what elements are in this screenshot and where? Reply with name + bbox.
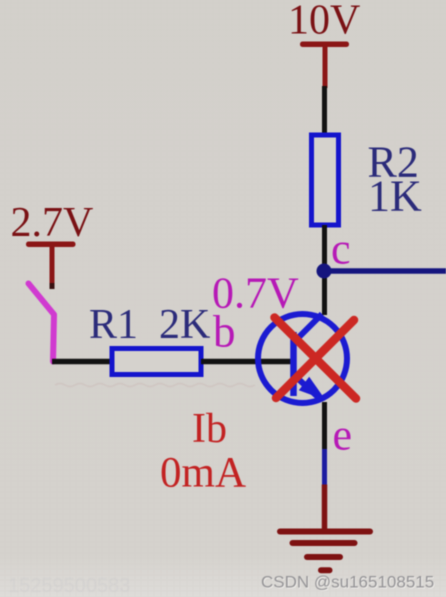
wire 10V to R2 [322, 86, 327, 135]
power symbol 2.7V stem [50, 245, 55, 287]
emitter lead dark red [322, 485, 328, 531]
svg-text:10V: 10V [288, 0, 360, 44]
svg-text:b: b [213, 307, 236, 357]
emitter lead blue [322, 449, 327, 485]
svg-text:c: c [331, 225, 351, 274]
svg-text:15259500583: 15259500583 [8, 575, 130, 597]
ground bar 3 [307, 554, 340, 560]
transistor emitter arrow [299, 377, 326, 400]
power symbol 2.7V bar [26, 242, 76, 248]
magenta wire (open switch) [29, 284, 55, 362]
svg-text:e: e [333, 411, 353, 460]
ground bar 4 [321, 567, 330, 573]
wire R1 to base [201, 359, 292, 365]
resistor R2 [312, 135, 339, 225]
transistor collector slant [295, 314, 322, 341]
transistor emitter slant [295, 376, 318, 397]
power symbol 10V bar [300, 42, 349, 48]
svg-text:Ib: Ib [192, 406, 227, 452]
red cross stroke 1 [275, 318, 357, 399]
wire to R1 [52, 359, 113, 365]
transistor base bar [290, 332, 297, 396]
ground bar 2 [293, 540, 355, 546]
red cross stroke 2 [276, 320, 354, 398]
wire R2 to collector [322, 225, 327, 315]
artifact squiggle [55, 384, 255, 387]
ground bar 1 [280, 529, 370, 535]
wire node c to right edge [324, 268, 446, 274]
svg-text:2.7V: 2.7V [11, 200, 94, 246]
resistor R1 [112, 349, 201, 375]
stem tip dark [50, 283, 55, 289]
svg-text:0mA: 0mA [160, 450, 246, 497]
emitter lead black [322, 402, 327, 449]
transistor Q1 body [258, 314, 347, 403]
svg-text:1K: 1K [368, 172, 422, 221]
svg-text:R1 2K: R1 2K [89, 302, 210, 348]
svg-text:CSDN @su165108515: CSDN @su165108515 [261, 573, 434, 592]
node c junction dot [317, 264, 332, 279]
power symbol 10V stem [323, 45, 328, 88]
